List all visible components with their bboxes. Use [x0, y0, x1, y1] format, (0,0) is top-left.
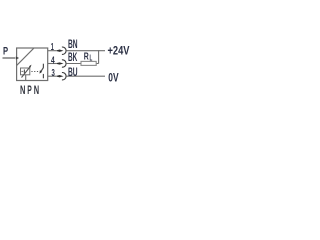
BN wire: [67, 50, 105, 52]
pin 1 wire: [48, 50, 60, 52]
svg-text:BU: BU: [68, 65, 78, 79]
svg-text:0V: 0V: [108, 71, 118, 85]
sensor element plate: [23, 70, 25, 74]
svg-text:L: L: [90, 53, 93, 62]
sensor body box U1: [17, 48, 48, 81]
rail from BK to +24V: [98, 50, 100, 63]
svg-text:N: N: [34, 83, 39, 97]
svg-text:+24V: +24V: [108, 44, 130, 58]
converter diagonal: [17, 48, 34, 65]
load resistor RL: [81, 61, 96, 65]
pin 3 wire: [48, 75, 60, 77]
svg-text:3: 3: [52, 67, 55, 79]
BK wire: [67, 63, 99, 65]
pin 4 plug arrow: [57, 62, 64, 64]
pin 1 socket arc: [62, 47, 66, 54]
BU wire: [67, 75, 105, 77]
switch stub from pin4: [42, 64, 44, 68]
pin 3 socket arc: [62, 73, 66, 80]
svg-text:1: 1: [51, 41, 54, 53]
adjustability arrow: [22, 67, 31, 78]
pin 1 plug arrow: [57, 50, 64, 52]
actuation dashed line: [31, 71, 38, 73]
P input arrow: [3, 57, 16, 59]
pin 4 socket arc: [62, 60, 66, 67]
svg-text:P: P: [27, 83, 32, 97]
pin 4 wire: [48, 63, 60, 65]
svg-text:4: 4: [51, 55, 55, 67]
svg-text:BK: BK: [68, 50, 77, 64]
stub below sensor element: [25, 75, 27, 81]
switch arm arrow: [41, 67, 43, 71]
svg-text:BN: BN: [68, 37, 78, 51]
switch fixed tick: [42, 74, 44, 78]
svg-text:P: P: [3, 46, 8, 58]
svg-text:R: R: [84, 52, 89, 63]
pin 3 plug arrow: [57, 75, 64, 77]
sensor element box: [21, 68, 30, 75]
sensor element lead: [21, 70, 23, 72]
svg-text:N: N: [20, 83, 25, 97]
